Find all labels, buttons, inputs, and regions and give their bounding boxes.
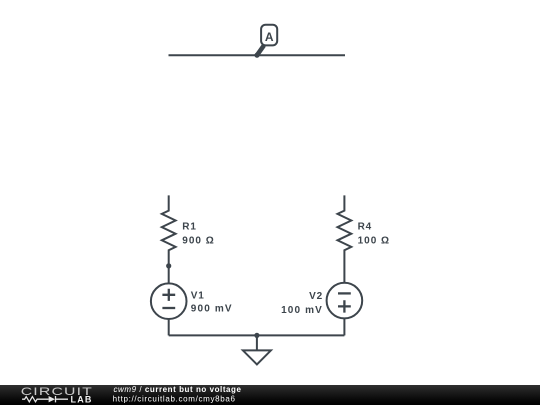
voltage source V2 xyxy=(327,283,363,336)
svg-text:A: A xyxy=(265,30,274,44)
svg-text:R1: R1 xyxy=(182,221,196,232)
svg-text:cwm9 / current but no voltage: cwm9 / current but no voltage xyxy=(114,385,242,394)
ground xyxy=(243,335,271,364)
svg-text:R4: R4 xyxy=(358,221,372,232)
svg-text:V2: V2 xyxy=(309,291,323,302)
resistor R4 xyxy=(338,195,352,282)
svg-text:900 Ω: 900 Ω xyxy=(182,235,214,246)
junction R1/V1 xyxy=(166,263,171,268)
svg-text:LAB: LAB xyxy=(71,395,93,405)
voltage source V1 xyxy=(151,266,187,336)
resistor R1 xyxy=(162,195,176,266)
wire (bottom rail) xyxy=(169,334,345,336)
svg-text:http://circuitlab.com/cmy8ba6: http://circuitlab.com/cmy8ba6 xyxy=(113,395,236,404)
svg-text:100 mV: 100 mV xyxy=(281,305,323,316)
svg-text:100 Ω: 100 Ω xyxy=(358,235,390,246)
junction (ground node) xyxy=(254,333,259,338)
footer bar xyxy=(0,385,540,405)
wire xyxy=(169,54,346,56)
CircuitLab logo xyxy=(21,386,93,405)
svg-text:V1: V1 xyxy=(191,291,205,302)
svg-text:900 mV: 900 mV xyxy=(191,304,233,315)
node A xyxy=(254,25,277,58)
